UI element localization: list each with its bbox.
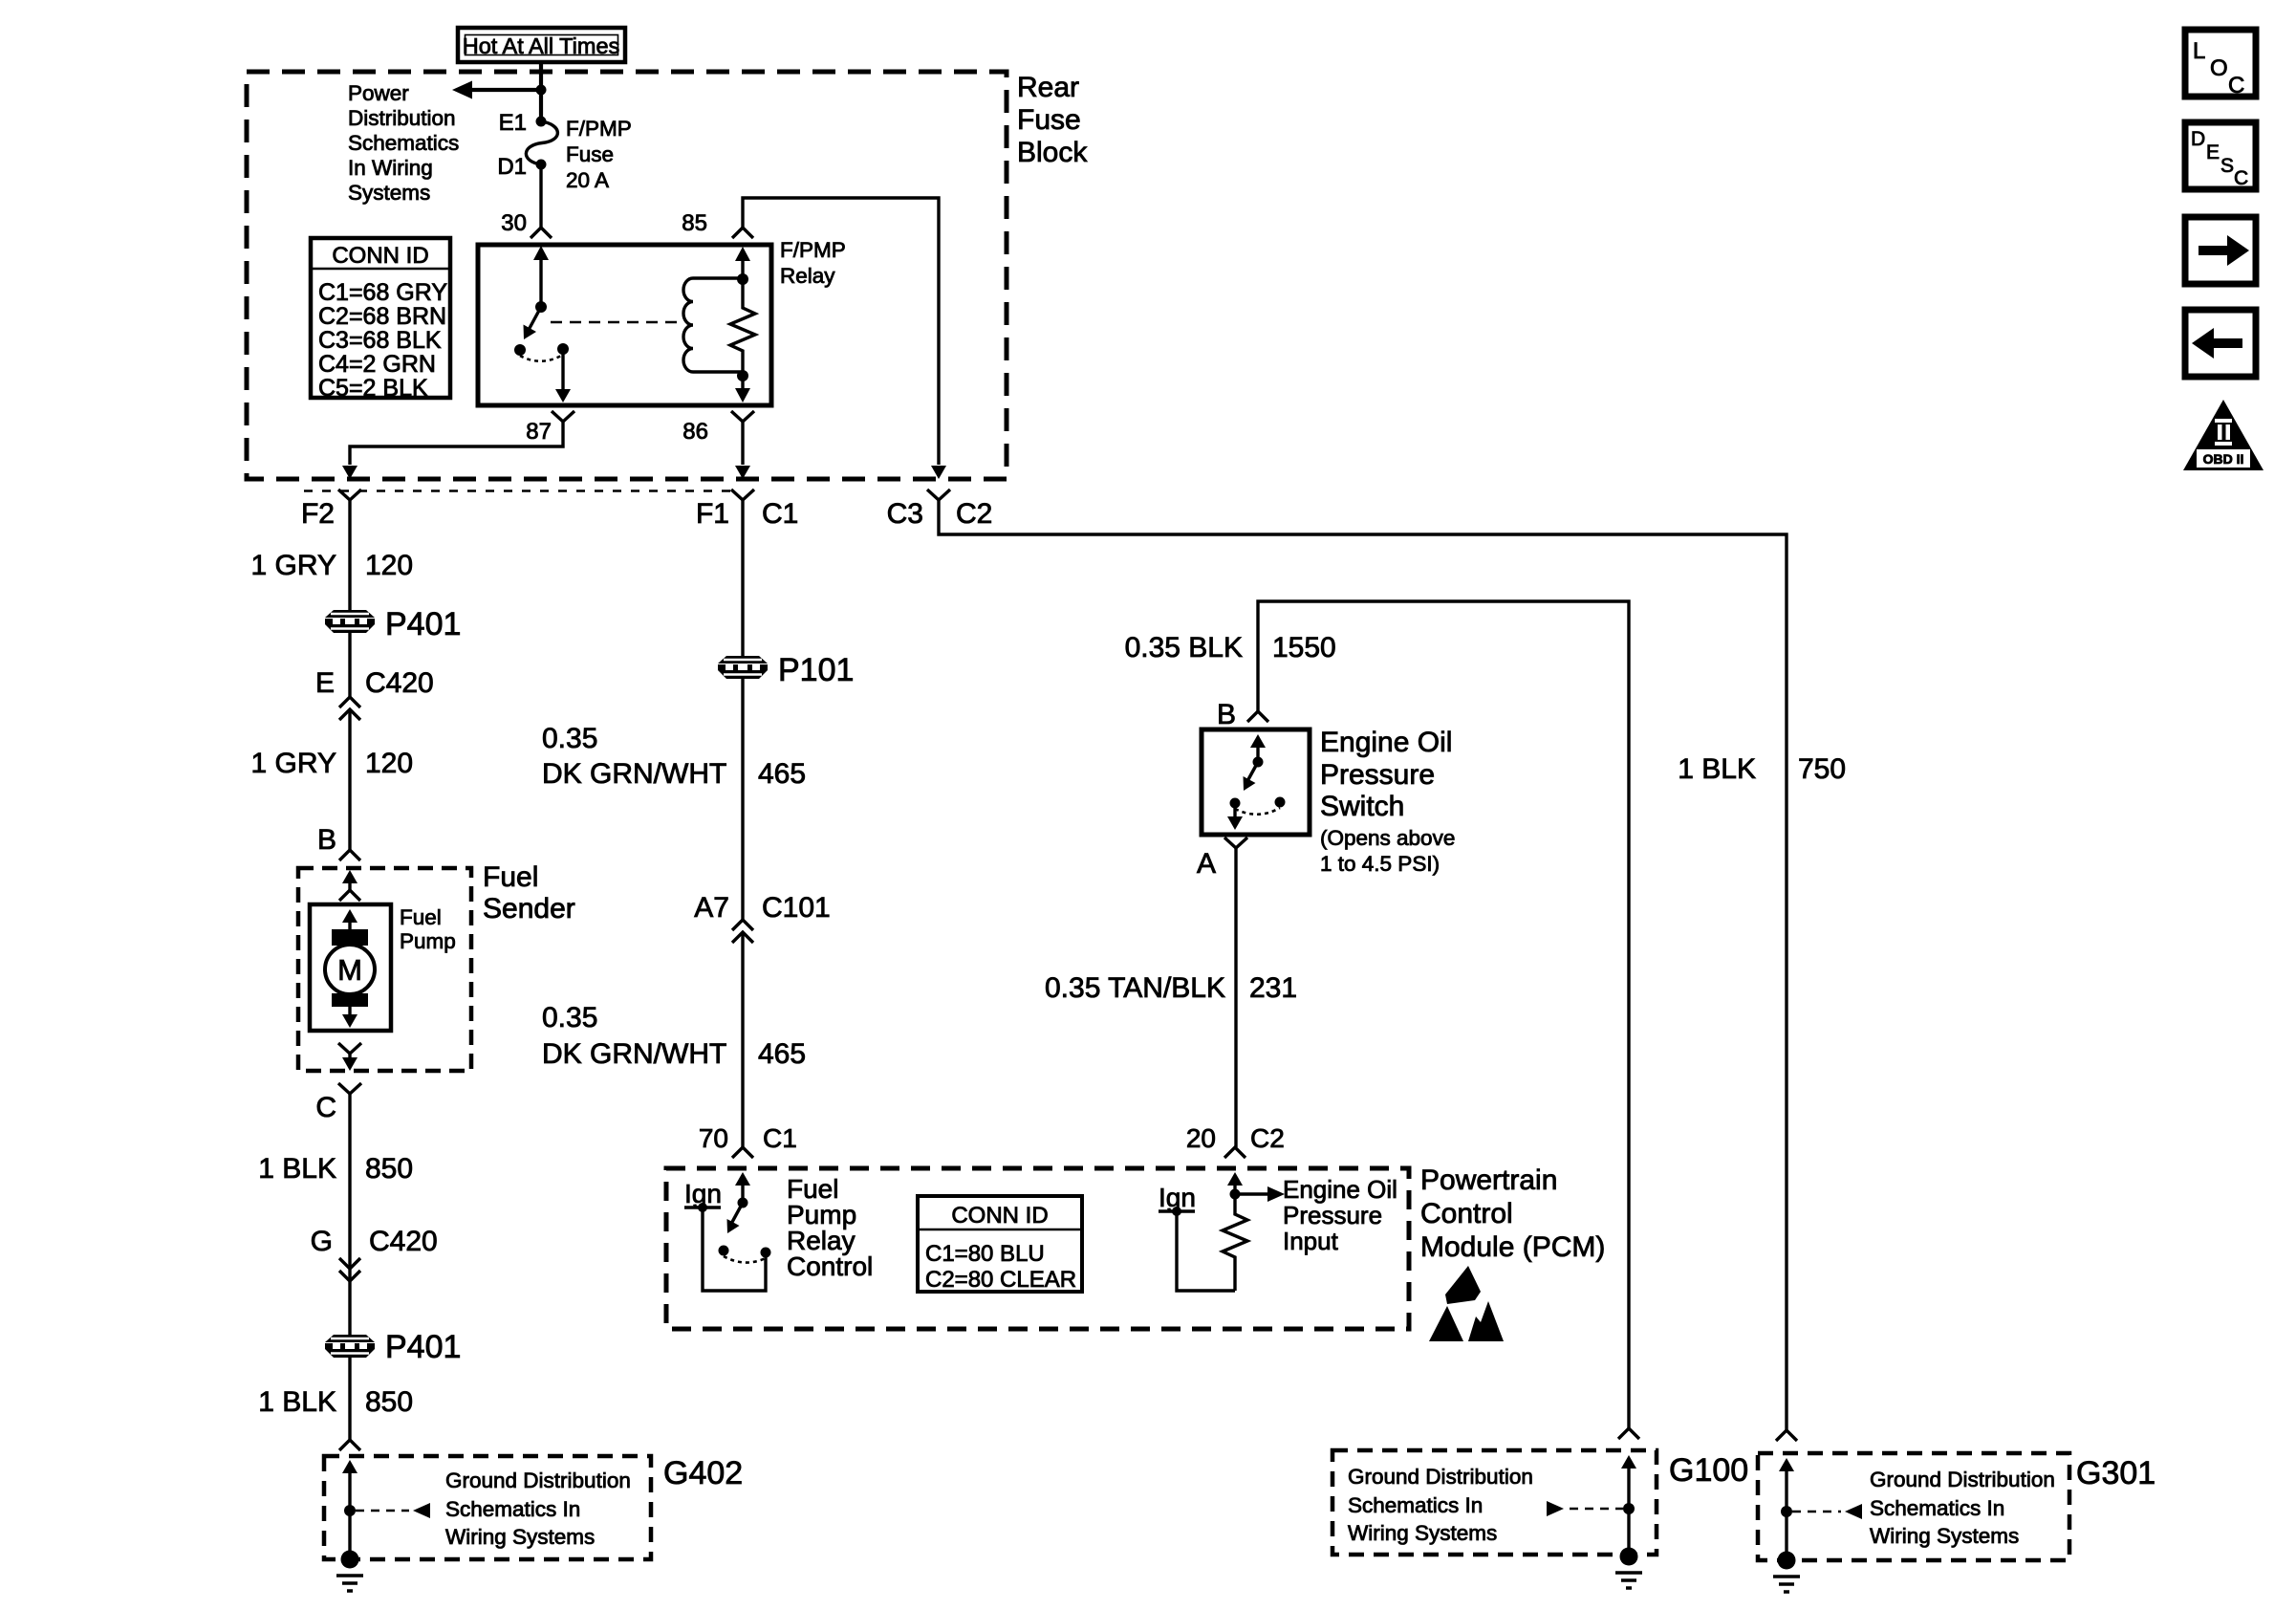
svg-text:120: 120 bbox=[365, 748, 413, 779]
relay contact dashed throw arc bbox=[520, 355, 563, 361]
svg-text:C2=68 BRN: C2=68 BRN bbox=[318, 303, 446, 330]
svg-text:Module (PCM): Module (PCM) bbox=[1420, 1231, 1605, 1263]
PCM driver switch pivot bbox=[738, 1198, 748, 1208]
svg-text:Fuel: Fuel bbox=[400, 905, 442, 929]
wire label 0.35 DK GRN/WHT 465 (upper) bbox=[542, 723, 806, 790]
Fuel Sender label bbox=[483, 861, 575, 925]
svg-text:Fuel: Fuel bbox=[483, 861, 538, 893]
switch internal arrow at B bbox=[1250, 734, 1266, 762]
fuse F/PMP Fuse 20 A (element between E1 and D1) bbox=[526, 117, 557, 170]
svg-text:1 GRY: 1 GRY bbox=[251, 748, 337, 779]
svg-text:1 GRY: 1 GRY bbox=[251, 550, 337, 581]
wire arrow to power distribution (left) bbox=[452, 81, 541, 99]
fuel pump label bbox=[400, 905, 456, 953]
wire label 1 GRY 120 (upper) bbox=[251, 550, 414, 581]
svg-text:1550: 1550 bbox=[1272, 632, 1336, 664]
svg-text:Relay: Relay bbox=[780, 264, 835, 288]
G301 note text bbox=[1870, 1468, 2055, 1548]
wire label 1 BLK 850 (upper) bbox=[258, 1153, 413, 1185]
relay suppression resistor bbox=[730, 279, 755, 376]
switch contact left (to A) bbox=[1230, 798, 1241, 809]
svg-text:E: E bbox=[315, 667, 335, 699]
G402 note text bbox=[445, 1469, 631, 1549]
svg-text:DK GRN/WHT: DK GRN/WHT bbox=[542, 758, 726, 790]
connector chevron pin 85 bbox=[732, 228, 753, 238]
relay actuation dashed link bbox=[551, 321, 681, 324]
Ign feed bar (pin 70 side) bbox=[684, 1203, 721, 1212]
svg-text:Sender: Sender bbox=[483, 893, 575, 925]
svg-text:Schematics In: Schematics In bbox=[1348, 1493, 1483, 1517]
svg-text:20: 20 bbox=[1186, 1123, 1216, 1153]
legend icon OBD II triangle bbox=[2183, 400, 2264, 470]
svg-text:F/PMP: F/PMP bbox=[566, 117, 632, 141]
wire fuel sender C down to G402 (1 BLK 850) bbox=[348, 1094, 351, 1335]
svg-text:Engine Oil: Engine Oil bbox=[1283, 1175, 1397, 1204]
svg-text:Control: Control bbox=[1420, 1198, 1513, 1229]
pin 86 connector chevron bbox=[731, 411, 754, 422]
ground symbol G301 bbox=[1773, 1552, 1800, 1593]
svg-text:C2=80 CLEAR: C2=80 CLEAR bbox=[925, 1267, 1076, 1293]
svg-text:F1: F1 bbox=[696, 498, 729, 530]
Engine Oil Pressure Input label bbox=[1283, 1175, 1397, 1255]
wire switch A down to PCM pin 20 (0.35 TAN/BLK 231) bbox=[1234, 848, 1237, 1147]
svg-text:E: E bbox=[2206, 141, 2220, 163]
svg-text:C: C bbox=[315, 1092, 336, 1123]
svg-text:C1: C1 bbox=[763, 1123, 797, 1153]
pass-through grommet P401 (upper) bbox=[325, 610, 375, 633]
G301 entry chevron bbox=[1776, 1430, 1797, 1441]
svg-text:Hot At All Times: Hot At All Times bbox=[463, 33, 620, 58]
svg-text:E1: E1 bbox=[499, 110, 527, 136]
PCM pull-up resistor bbox=[1223, 1194, 1247, 1291]
wire relay NO contact to pin 87 bbox=[555, 349, 571, 402]
svg-text:Ground Distribution: Ground Distribution bbox=[1348, 1465, 1533, 1489]
PCM pin 20 chevron bbox=[1224, 1147, 1245, 1158]
coil arrow to pin 85 bbox=[735, 247, 750, 279]
PCM internal: pin 70 driver arrow bbox=[735, 1172, 750, 1203]
connector chevron pin 30 bbox=[531, 228, 552, 238]
PCM pin 20 junction node bbox=[1230, 1189, 1241, 1200]
svg-text:DK GRN/WHT: DK GRN/WHT bbox=[542, 1038, 726, 1070]
fuel pump brush (bottom) bbox=[332, 993, 368, 1007]
G402 reference arrowhead bbox=[413, 1503, 430, 1518]
svg-text:Ground Distribution: Ground Distribution bbox=[1870, 1468, 2055, 1491]
svg-text:(Opens above: (Opens above bbox=[1320, 826, 1455, 850]
Engine Oil Pressure Switch label bbox=[1320, 727, 1455, 876]
svg-text:C4=2 GRN: C4=2 GRN bbox=[318, 351, 436, 378]
svg-text:Rear: Rear bbox=[1017, 72, 1079, 103]
wire label 0.35 DK GRN/WHT 465 (lower) bbox=[542, 1002, 806, 1070]
svg-text:P401: P401 bbox=[385, 606, 461, 642]
connector C2 chevron bbox=[927, 490, 950, 500]
arrow at fuse block border (C2 wire) bbox=[931, 466, 946, 479]
legend icon DESC bbox=[2185, 122, 2256, 189]
legend icon arrow right bbox=[2185, 217, 2256, 284]
svg-text:1 BLK: 1 BLK bbox=[258, 1153, 336, 1185]
svg-text:Distribution: Distribution bbox=[348, 106, 456, 130]
G100 note text bbox=[1348, 1465, 1533, 1545]
fuel pump box bbox=[310, 904, 391, 1031]
fuel pump brush (top) bbox=[332, 929, 368, 946]
svg-text:A7: A7 bbox=[694, 892, 729, 924]
svg-text:C3: C3 bbox=[887, 498, 923, 530]
svg-text:L: L bbox=[2193, 38, 2205, 64]
wire fuse D1 down to relay pin 30 bbox=[539, 164, 542, 228]
coil bottom node bbox=[737, 370, 748, 381]
G301 junction node bbox=[1781, 1506, 1792, 1517]
svg-text:Powertrain: Powertrain bbox=[1420, 1164, 1557, 1196]
svg-text:70: 70 bbox=[699, 1123, 728, 1153]
engine oil pressure switch box bbox=[1202, 729, 1310, 835]
svg-text:C420: C420 bbox=[369, 1226, 438, 1257]
svg-text:231: 231 bbox=[1249, 972, 1297, 1004]
in-line connector C420 double chevron (down) bbox=[339, 1258, 360, 1281]
svg-text:In Wiring: In Wiring bbox=[348, 156, 433, 180]
PCM driver contact left bbox=[719, 1246, 729, 1256]
svg-text:Schematics In: Schematics In bbox=[445, 1497, 580, 1521]
svg-text:Pump: Pump bbox=[400, 929, 456, 953]
svg-text:850: 850 bbox=[365, 1153, 413, 1185]
wire from Hot At All Times down to fuse E1 bbox=[539, 62, 543, 121]
wire to G301 ground point bbox=[1785, 1512, 1787, 1560]
svg-text:C1: C1 bbox=[762, 498, 798, 530]
fuel sender pin B chevron bbox=[339, 850, 360, 860]
PCM internal wire to Ign (pin 70 side) bbox=[703, 1207, 766, 1291]
svg-text:Fuse: Fuse bbox=[1017, 104, 1081, 136]
junction node on feed wire bbox=[536, 85, 547, 96]
G100 junction node bbox=[1623, 1503, 1635, 1514]
svg-text:C3=68 BLK: C3=68 BLK bbox=[318, 327, 442, 354]
Fuel Pump Relay Control label bbox=[787, 1174, 873, 1281]
svg-text:0.35: 0.35 bbox=[542, 723, 597, 754]
arrow into G402 bbox=[342, 1460, 357, 1511]
svg-text:Ign: Ign bbox=[1159, 1183, 1196, 1212]
G402 entry chevron bbox=[339, 1440, 360, 1450]
svg-text:Control: Control bbox=[787, 1251, 873, 1281]
svg-text:465: 465 bbox=[758, 758, 806, 790]
svg-text:OBD II: OBD II bbox=[2203, 451, 2244, 467]
PCM driver contact right bbox=[761, 1248, 771, 1258]
relay switch arm bbox=[524, 307, 542, 339]
wire label 1 GRY 120 (lower) bbox=[251, 748, 414, 779]
svg-text:0.35 BLK: 0.35 BLK bbox=[1125, 632, 1243, 664]
svg-text:Wiring Systems: Wiring Systems bbox=[1870, 1524, 2019, 1548]
wire pin 85 up and over to C2 exit bbox=[743, 198, 939, 465]
fuse value label bbox=[566, 117, 632, 192]
svg-text:C: C bbox=[2234, 167, 2248, 189]
G100 reference arrowhead bbox=[1547, 1501, 1564, 1516]
wire P401 to C420 pin E bbox=[348, 633, 351, 697]
svg-text:D: D bbox=[2191, 128, 2205, 150]
G100 entry chevron bbox=[1618, 1428, 1639, 1439]
Rear Fuse Block label bbox=[1017, 72, 1088, 168]
PCM input signal arrow (to comparator) bbox=[1235, 1186, 1285, 1202]
PCM pin 70 chevron bbox=[732, 1147, 753, 1158]
svg-text:750: 750 bbox=[1798, 753, 1846, 785]
note: Power Distribution Schematics In Wiring Systems bbox=[348, 81, 459, 205]
switch pin B chevron bbox=[1247, 711, 1268, 722]
switch arm bbox=[1244, 762, 1259, 791]
PCM internal: pin 20 input arrow bbox=[1227, 1172, 1243, 1194]
legend icon LOC bbox=[2185, 30, 2256, 98]
svg-text:B: B bbox=[317, 824, 336, 856]
wire P101 down to C101 bbox=[741, 679, 744, 920]
fuel pump exit chevron bbox=[338, 1043, 361, 1054]
svg-text:CONN ID: CONN ID bbox=[332, 243, 428, 269]
connector strip dashed line (F2 to F1) bbox=[304, 490, 734, 492]
G402 junction node bbox=[344, 1505, 356, 1516]
svg-text:Ign: Ign bbox=[684, 1179, 722, 1208]
svg-text:86: 86 bbox=[682, 419, 708, 445]
fuel sender pin C chevron bbox=[338, 1083, 361, 1094]
fuel pump feed arrow bbox=[342, 909, 357, 929]
svg-text:G301: G301 bbox=[2076, 1455, 2155, 1491]
Ign feed bar (pin 20 side) bbox=[1159, 1207, 1195, 1216]
svg-text:1 BLK: 1 BLK bbox=[258, 1386, 336, 1418]
switch contact right bbox=[1275, 797, 1286, 808]
in-line connector C101 double chevron (up) bbox=[732, 920, 753, 943]
svg-text:Systems: Systems bbox=[348, 181, 430, 205]
svg-text:O: O bbox=[2210, 55, 2228, 81]
svg-text:C420: C420 bbox=[365, 667, 434, 699]
svg-text:S: S bbox=[2220, 155, 2234, 177]
fuel pump motor M bbox=[325, 945, 375, 994]
svg-text:Input: Input bbox=[1283, 1227, 1339, 1255]
wire to G100 ground point bbox=[1627, 1509, 1630, 1556]
wire F1/C1 down to PCM pin 70 (0.35 DK GRN/WHT 465) bbox=[741, 500, 744, 656]
pass-through grommet P401 (lower) bbox=[325, 1335, 375, 1358]
svg-text:87: 87 bbox=[526, 419, 552, 445]
PCM internal wire to Ign (pin 20 side) bbox=[1177, 1211, 1235, 1291]
PCM label bbox=[1420, 1164, 1605, 1263]
fuel pump return arrow bbox=[342, 1007, 357, 1028]
svg-text:0.35 TAN/BLK: 0.35 TAN/BLK bbox=[1045, 972, 1225, 1004]
svg-text:G402: G402 bbox=[663, 1455, 743, 1491]
Powertrain Control Module dashed box bbox=[666, 1168, 1409, 1329]
wire label 1 BLK 850 (lower) bbox=[258, 1386, 413, 1418]
svg-text:Switch: Switch bbox=[1320, 791, 1404, 822]
svg-text:1 BLK: 1 BLK bbox=[1678, 753, 1756, 785]
svg-text:120: 120 bbox=[365, 550, 413, 581]
wire pin 86 down to F1 bbox=[741, 422, 744, 465]
svg-text:Ground Distribution: Ground Distribution bbox=[445, 1469, 631, 1492]
PCM driver switch arm bbox=[727, 1203, 744, 1233]
svg-text:Pressure: Pressure bbox=[1283, 1201, 1382, 1229]
svg-text:C1=80 BLU: C1=80 BLU bbox=[925, 1241, 1045, 1267]
wire to G402 ground point bbox=[348, 1511, 351, 1559]
PCM driver dashed throw arc bbox=[724, 1256, 766, 1263]
wire F2 down to fuel sender (1 GRY 120 circuit) bbox=[348, 500, 351, 610]
wire label 1 BLK 750 bbox=[1678, 753, 1846, 785]
switch internal arrow at A bbox=[1227, 803, 1243, 830]
svg-text:CONN ID: CONN ID bbox=[951, 1203, 1048, 1229]
fuel sender dashed box bbox=[298, 868, 471, 1071]
svg-text:C: C bbox=[2228, 73, 2244, 98]
svg-text:1 to 4.5 PSI): 1 to 4.5 PSI) bbox=[1320, 852, 1440, 876]
svg-text:Fuse: Fuse bbox=[566, 142, 614, 166]
svg-text:850: 850 bbox=[365, 1386, 413, 1418]
G301 dashed reference link bbox=[1792, 1511, 1841, 1513]
svg-text:Wiring Systems: Wiring Systems bbox=[1348, 1521, 1497, 1545]
arrow out of fuel sender at C bbox=[342, 1054, 357, 1071]
relay switch pivot bbox=[535, 301, 547, 313]
G301 reference arrowhead bbox=[1845, 1504, 1862, 1519]
switch pin A chevron bbox=[1224, 838, 1247, 848]
svg-text:G100: G100 bbox=[1669, 1452, 1748, 1489]
svg-text:20 A: 20 A bbox=[566, 168, 609, 192]
svg-text:Schematics: Schematics bbox=[348, 131, 459, 155]
G100 dashed reference link bbox=[1570, 1508, 1623, 1511]
svg-text:M: M bbox=[337, 953, 362, 987]
G402 dashed reference link bbox=[356, 1510, 409, 1512]
connector F2 chevron bbox=[338, 490, 361, 500]
pass-through grommet P101 bbox=[718, 656, 768, 679]
svg-text:C2: C2 bbox=[1250, 1123, 1285, 1153]
svg-text:Schematics In: Schematics In bbox=[1870, 1496, 2004, 1520]
PCM CONN ID table bbox=[918, 1196, 1082, 1293]
svg-text:C5=2 BLK: C5=2 BLK bbox=[318, 375, 428, 402]
relay coil bbox=[683, 278, 743, 372]
svg-text:G: G bbox=[311, 1226, 333, 1257]
svg-text:C2: C2 bbox=[956, 498, 992, 530]
ground G301 dashed box bbox=[1758, 1453, 2069, 1560]
arrow into fuel sender at B bbox=[339, 870, 360, 901]
svg-text:F2: F2 bbox=[301, 498, 335, 530]
relay common arm arrow (pin 30 inside) bbox=[533, 246, 549, 302]
svg-text:Block: Block bbox=[1017, 137, 1088, 168]
ground G100 dashed box bbox=[1332, 1450, 1657, 1555]
relay U-box F/PMP Relay bbox=[478, 245, 771, 405]
svg-text:Pressure: Pressure bbox=[1320, 759, 1435, 791]
svg-text:P101: P101 bbox=[778, 652, 854, 688]
wire C420 down to fuel sender pin B bbox=[348, 711, 351, 850]
CONN ID table (rear fuse block) bbox=[311, 238, 450, 402]
arrow at fuse block border (F1 wire) bbox=[735, 466, 750, 479]
ground G402 dashed box bbox=[324, 1456, 651, 1559]
in-line connector C420 double chevron (up) bbox=[339, 697, 360, 720]
svg-text:Wiring Systems: Wiring Systems bbox=[445, 1525, 595, 1549]
wire C2 exit right and down to G301 (1 BLK 750) bbox=[939, 500, 1787, 1430]
svg-text:D1: D1 bbox=[497, 154, 527, 180]
svg-text:F/PMP: F/PMP bbox=[780, 238, 846, 262]
wire label 0.35 BLK 1550 bbox=[1125, 632, 1336, 664]
switch dashed throw arc bbox=[1235, 808, 1280, 815]
ground symbol G100 bbox=[1615, 1548, 1642, 1589]
relay contact (NC, left) bbox=[514, 344, 526, 356]
coil top node bbox=[737, 273, 748, 285]
legend icon arrow left bbox=[2185, 310, 2256, 377]
svg-text:B: B bbox=[1217, 699, 1236, 730]
coil arrow to pin 86 bbox=[735, 376, 750, 402]
arrow into G301 bbox=[1779, 1458, 1794, 1512]
svg-text:85: 85 bbox=[682, 210, 707, 236]
svg-text:Power: Power bbox=[348, 81, 409, 105]
arrow at fuse block border (F2 wire) bbox=[342, 466, 357, 479]
Rear Fuse Block dashed outline bbox=[247, 72, 1007, 479]
svg-text:30: 30 bbox=[501, 210, 527, 236]
wire P401 down to G402 bbox=[348, 1358, 351, 1440]
svg-text:P401: P401 bbox=[385, 1329, 461, 1365]
svg-text:Engine Oil: Engine Oil bbox=[1320, 727, 1452, 758]
wire C101 down to PCM pin 70 bbox=[741, 934, 744, 1147]
arrow into G100 bbox=[1621, 1455, 1636, 1509]
wire pin 87 down, left and out to F2 bbox=[350, 422, 563, 465]
svg-text:465: 465 bbox=[758, 1038, 806, 1070]
wire switch B up and over to G100 (0.35 BLK 1550) bbox=[1258, 601, 1629, 1428]
relay contact (NO, right to pin 87) bbox=[557, 343, 569, 355]
svg-text:0.35: 0.35 bbox=[542, 1002, 597, 1033]
wire label 0.35 TAN/BLK 231 bbox=[1045, 972, 1297, 1004]
connector F1 chevron bbox=[731, 490, 754, 500]
power feed box "Hot At All Times" bbox=[458, 28, 625, 62]
svg-text:C101: C101 bbox=[762, 892, 831, 924]
svg-text:C1=68 GRY: C1=68 GRY bbox=[318, 279, 447, 306]
svg-text:A: A bbox=[1197, 848, 1216, 880]
switch pivot bbox=[1253, 757, 1264, 768]
ESD sensitive device symbol bbox=[1429, 1266, 1504, 1341]
F/PMP Relay label bbox=[780, 238, 846, 288]
pin 87 connector chevron bbox=[552, 411, 574, 422]
ground symbol G402 bbox=[336, 1551, 363, 1592]
